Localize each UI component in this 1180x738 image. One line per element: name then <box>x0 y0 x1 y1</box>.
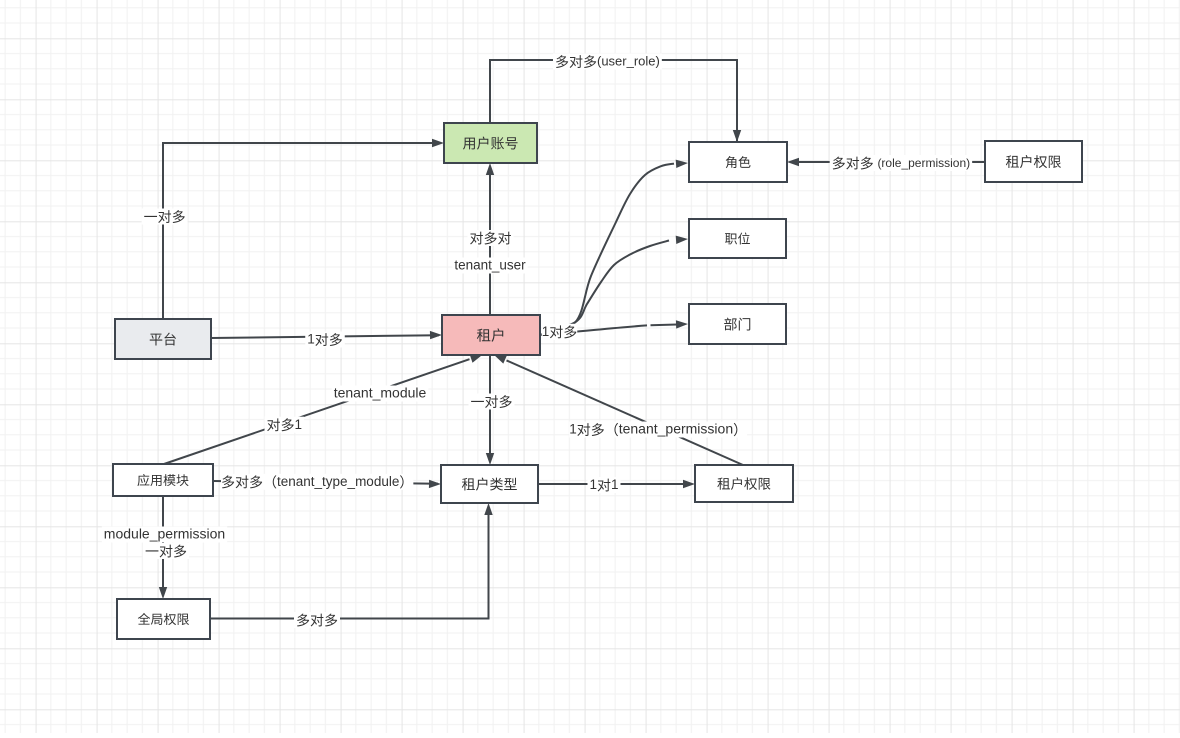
svg-text:tenant_user: tenant_user <box>454 258 526 273</box>
svg-text:module_permission: module_permission <box>104 526 225 542</box>
svg-text:tenant_type_module: tenant_type_module <box>277 474 399 489</box>
svg-text:(user_role): (user_role) <box>597 54 660 69</box>
svg-text:tenant_module: tenant_module <box>334 385 427 401</box>
svg-text:1: 1 <box>569 422 577 437</box>
svg-text:1: 1 <box>589 477 597 492</box>
svg-text:1: 1 <box>295 417 303 432</box>
svg-text:1: 1 <box>542 324 550 339</box>
svg-text:1: 1 <box>611 477 619 492</box>
svg-text:1: 1 <box>307 332 315 347</box>
svg-text:(role_permission): (role_permission) <box>877 156 970 170</box>
svg-text:tenant_permission: tenant_permission <box>619 421 733 437</box>
